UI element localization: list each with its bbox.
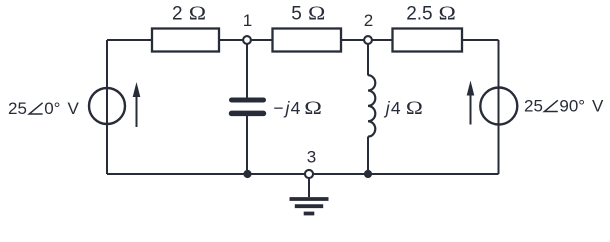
wire capacitor branch upper bbox=[246, 40, 248, 100]
source V2 circle bbox=[480, 88, 517, 125]
wire bottom rail bbox=[107, 173, 499, 175]
label 2 ohm bbox=[172, 2, 206, 24]
svg-text:90°: 90° bbox=[559, 97, 585, 116]
svg-text:5: 5 bbox=[291, 4, 302, 25]
svg-text:1: 1 bbox=[243, 11, 252, 30]
inductor j4 coil bbox=[368, 75, 375, 136]
svg-text:4: 4 bbox=[391, 98, 401, 118]
wire top rail bbox=[107, 39, 499, 41]
svg-text:2.5: 2.5 bbox=[406, 4, 432, 25]
svg-text:4: 4 bbox=[291, 98, 301, 118]
svg-text:2: 2 bbox=[364, 11, 373, 30]
svg-text:2: 2 bbox=[172, 4, 183, 25]
svg-text:Ω: Ω bbox=[189, 2, 206, 24]
svg-text:25: 25 bbox=[8, 99, 27, 118]
resistor R 2ohm bbox=[152, 29, 219, 52]
label 2.5 ohm bbox=[406, 2, 456, 24]
wire capacitor branch lower bbox=[246, 113, 248, 174]
svg-text:Ω: Ω bbox=[406, 97, 423, 119]
node 1 terminal bbox=[243, 36, 251, 44]
wire ground stem bbox=[308, 174, 310, 197]
ground symbol bbox=[290, 199, 329, 214]
svg-text:V: V bbox=[592, 97, 604, 116]
wire inductor branch lower bbox=[367, 137, 369, 175]
wire inductor branch upper bbox=[367, 40, 369, 76]
svg-text:−: − bbox=[273, 98, 283, 118]
node 2 terminal bbox=[364, 36, 372, 44]
svg-text:25: 25 bbox=[524, 97, 543, 116]
capacitor -j4 plates bbox=[232, 100, 264, 113]
source V2 arrow bbox=[467, 81, 475, 125]
resistor R 2.5ohm bbox=[393, 29, 463, 52]
junction dot inductor-bottom bbox=[364, 170, 372, 178]
label inductor j4 ohm bbox=[384, 97, 423, 119]
resistor R 5ohm bbox=[273, 29, 342, 52]
svg-text:V: V bbox=[68, 99, 80, 118]
svg-text:Ω: Ω bbox=[308, 2, 325, 24]
svg-text:3: 3 bbox=[307, 148, 316, 167]
label source V2 25 angle 90 V bbox=[524, 97, 604, 116]
label 5 ohm bbox=[291, 2, 325, 24]
label source V1 25 angle 0 V bbox=[8, 99, 80, 118]
svg-text:j: j bbox=[284, 98, 291, 118]
label capacitor -j4 ohm bbox=[273, 97, 322, 118]
svg-text:j: j bbox=[384, 98, 391, 118]
wire left rail bbox=[106, 40, 108, 174]
junction dot capacitor-bottom bbox=[243, 170, 251, 178]
node 3 terminal bbox=[305, 170, 313, 178]
svg-text:0°: 0° bbox=[44, 99, 60, 118]
source V1 circle bbox=[89, 88, 125, 124]
svg-text:Ω: Ω bbox=[304, 97, 322, 118]
wire right rail bbox=[498, 40, 500, 174]
svg-text:Ω: Ω bbox=[438, 2, 455, 24]
source V1 arrow bbox=[133, 82, 141, 127]
